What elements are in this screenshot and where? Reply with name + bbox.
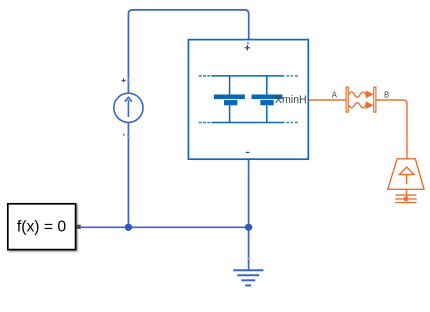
svg-text:B: B [384,91,389,100]
svg-text:XminH: XminH [275,94,307,106]
svg-text:f(x) = 0: f(x) = 0 [17,219,67,236]
svg-text:A: A [332,91,338,100]
